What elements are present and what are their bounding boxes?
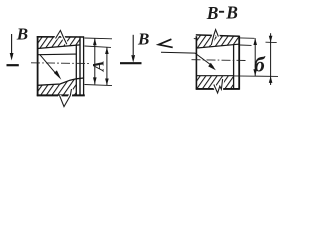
top edge (37, 36, 84, 38)
svg-text:В: В (16, 24, 28, 43)
leader line to section (161, 52, 216, 70)
dimension line A (93, 38, 97, 84)
outer dimension line right (269, 33, 273, 85)
outer right edge V2r (238, 36, 240, 90)
inner horizontal line L2 (38, 53, 76, 56)
top extension stub left of section (194, 38, 198, 40)
right view outline (196, 35, 240, 90)
left view outline (37, 36, 85, 96)
svg-text:В: В (137, 29, 149, 48)
break line zigzag bottom (white halo) (60, 89, 72, 107)
extension line E3 bottom (85, 85, 113, 86)
svg-text:В: В (225, 3, 238, 23)
open view arrow (159, 39, 173, 47)
section arrow B right: arrow (131, 35, 135, 63)
center line right view (192, 59, 247, 62)
band bottom line (197, 44, 239, 48)
extension line E1b (240, 37, 255, 39)
break line zigzag top (56, 30, 67, 44)
bottom edge (196, 88, 240, 90)
break line zigzag bottom right view (white halo) (214, 79, 223, 93)
right view: top hatched band (197, 35, 239, 48)
svg-text:б: б (254, 53, 266, 77)
extension line E2b (240, 44, 252, 46)
hole right edge V1 (75, 45, 77, 95)
break line zigzag top right view (211, 30, 218, 45)
title B-B: dash (219, 11, 224, 13)
section arrow B left: arrow (10, 34, 14, 61)
left view: top hatched band (38, 36, 80, 48)
extension line E2 (85, 46, 112, 47)
dimension line D2 (105, 47, 109, 85)
hole right edge V1r (233, 44, 235, 89)
break line zigzag bottom right view (214, 79, 223, 93)
center line left view (31, 62, 89, 65)
right view: bottom hatched band (196, 76, 233, 89)
left edge (195, 36, 197, 89)
top edge (196, 35, 240, 36)
inner cone top line (38, 45, 80, 49)
bottom edge (37, 94, 85, 96)
break line zigzag bottom (60, 89, 72, 107)
right face outer V3 (83, 36, 85, 95)
extension line E1 top (85, 37, 113, 40)
section arrow B left: cutting plane trace (7, 64, 19, 66)
break line zigzag top (white halo) (56, 31, 67, 44)
svg-text:А: А (90, 60, 107, 72)
right face V2 (79, 36, 81, 95)
left view: bottom hatched band (38, 79, 77, 95)
svg-text:В: В (206, 3, 219, 23)
extension line E3b (234, 75, 278, 78)
section arrow B right: cutting plane trace (120, 62, 142, 64)
extension tick for outer dimension (266, 41, 277, 43)
break line zigzag top right view (white halo) (211, 30, 218, 45)
lower inner line (196, 75, 233, 77)
inner cone bottom line (38, 78, 84, 85)
left edge (37, 36, 39, 96)
dimension line b (253, 38, 257, 76)
leader arrow inside left view (40, 55, 61, 80)
